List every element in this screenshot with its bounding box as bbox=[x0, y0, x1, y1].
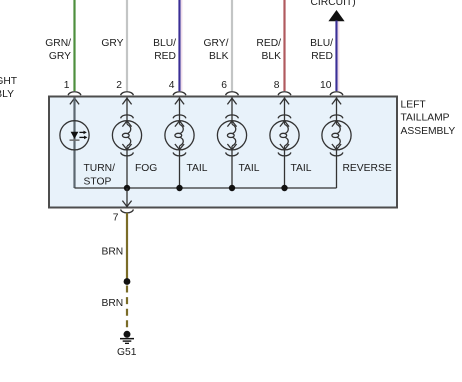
splice dot bbox=[124, 278, 131, 285]
svg-text:RED: RED bbox=[154, 51, 176, 62]
connector arc pin 4 bbox=[173, 92, 186, 95]
wire pin to lamp FOG bbox=[126, 98, 128, 189]
svg-text:ASSEMBLY: ASSEMBLY bbox=[0, 89, 14, 100]
label BLU/RED bbox=[153, 38, 176, 62]
pin 8 bbox=[274, 80, 280, 91]
junction dot at x=284.5 bbox=[281, 185, 287, 191]
svg-text:GRY: GRY bbox=[101, 38, 123, 49]
svg-text:ASSEMBLY: ASSEMBLY bbox=[401, 126, 456, 137]
svg-text:BRN: BRN bbox=[102, 247, 124, 258]
svg-text:LEFT: LEFT bbox=[401, 99, 427, 110]
connector arc pin 2 bbox=[121, 92, 134, 95]
pin 8 entry arrow bbox=[280, 98, 289, 104]
svg-text:TURN/: TURN/ bbox=[84, 163, 116, 174]
svg-text:TAIL: TAIL bbox=[187, 163, 208, 174]
label GRY/BLK bbox=[204, 38, 229, 62]
pin 7 bbox=[113, 213, 119, 224]
svg-text:BLU/: BLU/ bbox=[310, 38, 333, 49]
arrow to circuit (wire BLU/RED pin 10) bbox=[328, 10, 344, 91]
label ASSEMBLY (cut at edge) bbox=[0, 89, 14, 100]
svg-text:REVERSE: REVERSE bbox=[343, 163, 392, 174]
bus wire to pin 7 bbox=[75, 187, 337, 189]
svg-text:4: 4 bbox=[169, 80, 175, 91]
wire pin to lamp TAIL bbox=[231, 98, 233, 189]
svg-text:BLK: BLK bbox=[209, 51, 229, 62]
svg-text:RIGHT: RIGHT bbox=[0, 76, 18, 87]
wire pin to lamp TAIL bbox=[284, 98, 286, 189]
pin 4 entry arrow bbox=[175, 98, 184, 104]
connector arc pin 6 bbox=[226, 92, 239, 95]
label GRN/GRY bbox=[45, 38, 71, 62]
pin 10 bbox=[320, 80, 332, 91]
label TAIL bbox=[239, 163, 260, 174]
label RED/BLK bbox=[256, 38, 281, 62]
svg-text:BRN: BRN bbox=[102, 298, 124, 309]
pin 1 entry arrow bbox=[70, 98, 79, 104]
label LEFT TAILLAMP ASSEMBLY bbox=[401, 99, 456, 137]
label BRN bbox=[102, 298, 124, 309]
svg-text:GRY/: GRY/ bbox=[204, 38, 229, 49]
wire GRY/BLK to pin 6 bbox=[231, 0, 233, 91]
connector arc pin 7 bbox=[121, 209, 134, 212]
pin 7 exit arrow bbox=[122, 201, 131, 207]
svg-text:STOP: STOP bbox=[84, 176, 112, 187]
label REVERSE bbox=[343, 163, 392, 174]
pin 4 bbox=[169, 80, 175, 91]
svg-text:G51: G51 bbox=[117, 347, 137, 358]
svg-text:2: 2 bbox=[116, 80, 122, 91]
svg-text:8: 8 bbox=[274, 80, 280, 91]
svg-text:FOG: FOG bbox=[135, 163, 157, 174]
lamp REVERSE bbox=[322, 115, 351, 156]
wire bus to pin 7 bbox=[126, 188, 128, 206]
ground G51 bbox=[120, 331, 134, 344]
connector arc pin 1 bbox=[68, 92, 81, 95]
junction dot at x=232 bbox=[229, 185, 235, 191]
label (CIRCUIT) bbox=[311, 0, 356, 8]
svg-text:1: 1 bbox=[64, 80, 70, 91]
pin 10 entry arrow bbox=[332, 98, 341, 104]
svg-text:CIRCUIT): CIRCUIT) bbox=[311, 0, 356, 8]
pin 1 bbox=[64, 80, 70, 91]
wire GRY to pin 2 bbox=[126, 0, 128, 91]
svg-text:RED/: RED/ bbox=[256, 38, 281, 49]
LED lamp D1 TURN/STOP bbox=[60, 121, 89, 150]
svg-text:6: 6 bbox=[221, 80, 227, 91]
svg-text:TAIL: TAIL bbox=[239, 163, 260, 174]
label FOG bbox=[135, 163, 157, 174]
lamp TAIL bbox=[270, 115, 299, 156]
label RIGHT (cut at edge) bbox=[0, 76, 18, 87]
svg-text:RED: RED bbox=[311, 51, 333, 62]
label BLU/RED bbox=[310, 38, 333, 62]
wire BLU/RED to pin 4 bbox=[180, 0, 182, 91]
label BRN bbox=[102, 247, 124, 258]
pin 6 entry arrow bbox=[227, 98, 236, 104]
svg-text:TAIL: TAIL bbox=[291, 163, 312, 174]
svg-text:BLU/: BLU/ bbox=[153, 38, 176, 49]
pin 2 entry arrow bbox=[122, 98, 131, 104]
svg-text:GRY: GRY bbox=[49, 51, 71, 62]
connector arc pin 10 bbox=[330, 92, 343, 95]
junction dot at x=127 bbox=[124, 185, 130, 191]
connector arc pin 8 bbox=[278, 92, 291, 95]
label G51 bbox=[117, 347, 137, 358]
wire BRN dashed bbox=[126, 286, 128, 328]
wire GRN/GRY to pin 1 bbox=[73, 0, 75, 91]
wire pin to lamp TAIL bbox=[179, 98, 181, 189]
wire RED/BLK to pin 8 bbox=[283, 0, 285, 91]
junction dot at x=179.5 bbox=[176, 185, 182, 191]
lamp FOG bbox=[112, 115, 141, 156]
pin 2 bbox=[116, 80, 122, 91]
svg-text:GRN/: GRN/ bbox=[45, 38, 71, 49]
left taillamp assembly box bbox=[49, 97, 397, 208]
label TURN/STOP bbox=[84, 163, 116, 187]
lamp TAIL bbox=[165, 115, 194, 156]
svg-text:7: 7 bbox=[113, 213, 119, 224]
lamp TAIL bbox=[217, 115, 246, 156]
label GRY bbox=[101, 38, 123, 49]
label TAIL bbox=[291, 163, 312, 174]
svg-text:TAILLAMP: TAILLAMP bbox=[401, 113, 450, 124]
pin 6 bbox=[221, 80, 227, 91]
svg-text:10: 10 bbox=[320, 80, 332, 91]
label TAIL bbox=[187, 163, 208, 174]
wire pin 1 to bus bbox=[73, 98, 75, 189]
svg-text:BLK: BLK bbox=[262, 51, 282, 62]
wire pin to lamp REVERSE bbox=[336, 98, 338, 189]
wire BRN solid bbox=[126, 213, 128, 279]
